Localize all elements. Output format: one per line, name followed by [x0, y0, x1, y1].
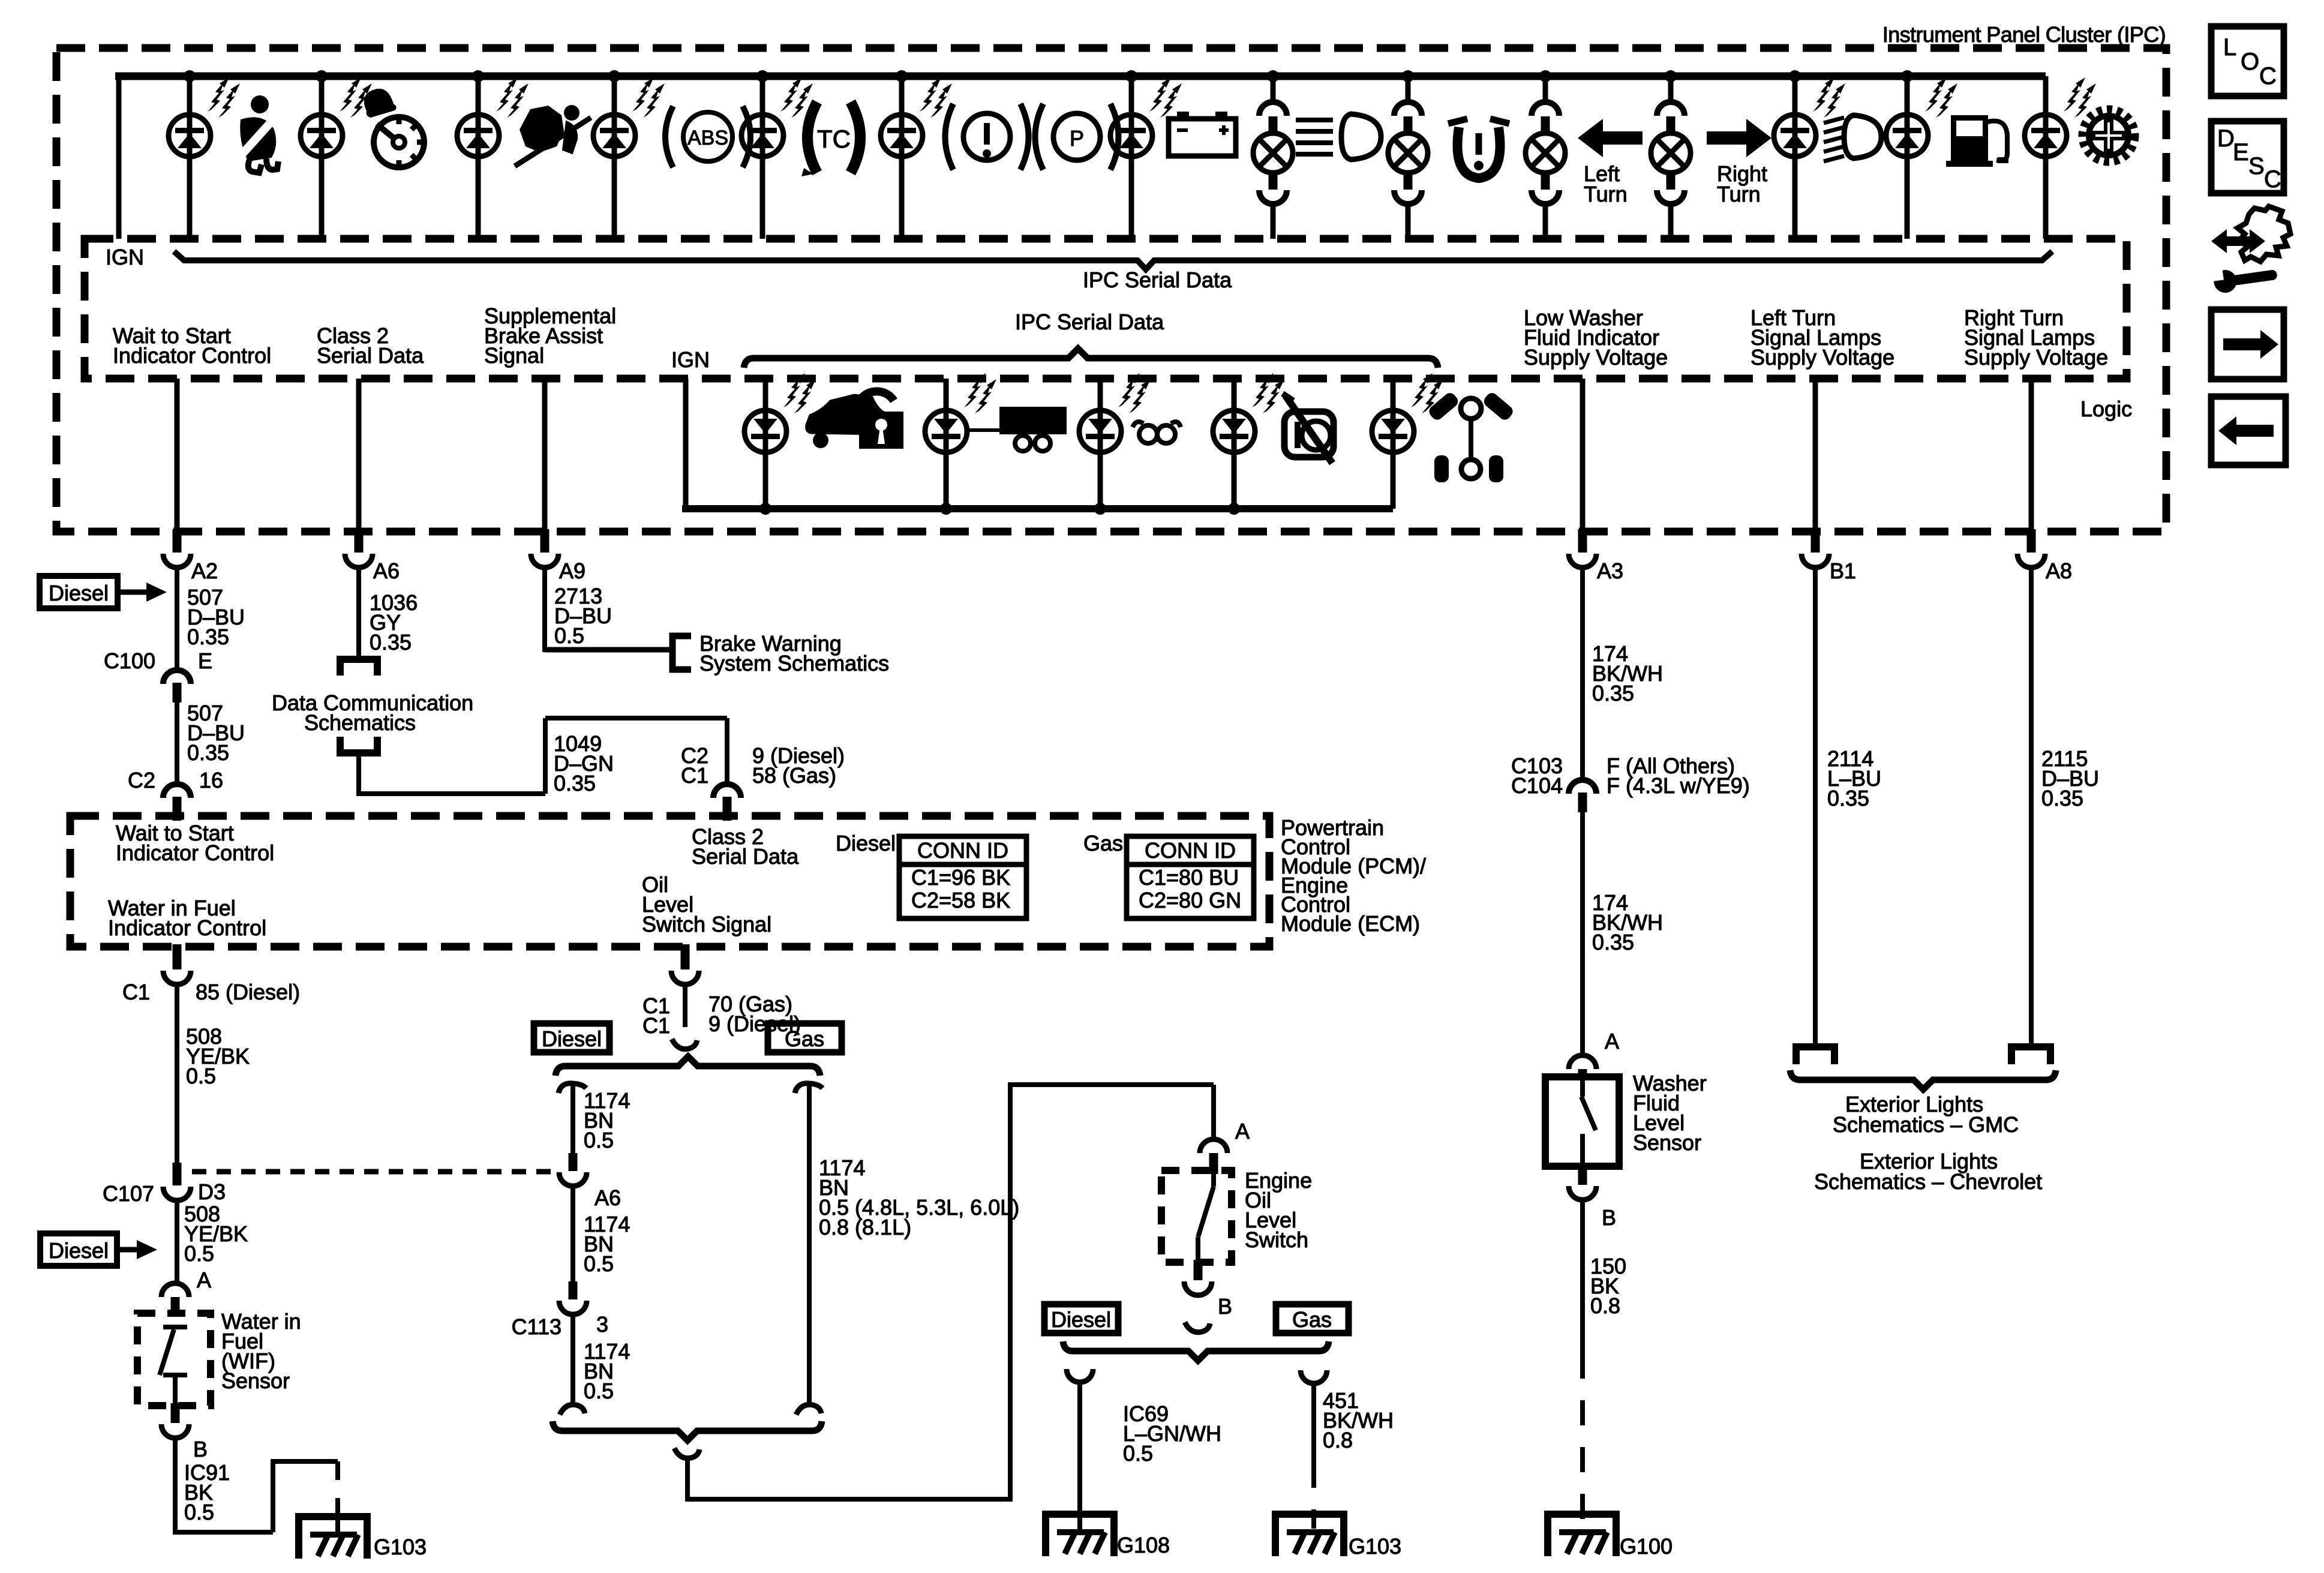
svg-text:G103: G103	[1349, 1534, 1401, 1559]
svg-text:C113: C113	[512, 1314, 562, 1339]
svg-text:C: C	[2264, 166, 2281, 193]
svg-text:Gas: Gas	[1292, 1307, 1332, 1332]
svg-text:ABS: ABS	[687, 127, 728, 149]
svg-text:Serial Data: Serial Data	[317, 343, 424, 368]
svg-text:Switch: Switch	[1245, 1227, 1308, 1252]
svg-text:Turn: Turn	[1584, 182, 1628, 206]
svg-text:Supply Voltage: Supply Voltage	[1964, 345, 2108, 370]
svg-text:Diesel: Diesel	[49, 581, 109, 605]
svg-text:A3: A3	[1597, 559, 1623, 583]
svg-text:C1=80 BU: C1=80 BU	[1139, 865, 1239, 890]
svg-text:C100: C100	[104, 649, 155, 673]
svg-text:A: A	[1605, 1029, 1619, 1053]
svg-text:Signal: Signal	[484, 343, 544, 368]
svg-text:C2=80 GN: C2=80 GN	[1139, 888, 1241, 912]
svg-text:C: C	[2259, 63, 2277, 89]
svg-text:F (4.3L w/YE9): F (4.3L w/YE9)	[1607, 773, 1750, 798]
svg-text:G108: G108	[1117, 1533, 1170, 1557]
svg-text:0.35: 0.35	[187, 625, 229, 649]
svg-text:C2=58 BK: C2=58 BK	[911, 888, 1010, 912]
svg-text:IGN: IGN	[671, 347, 710, 372]
svg-text:B: B	[193, 1437, 208, 1461]
svg-text:IPC Serial Data: IPC Serial Data	[1015, 310, 1164, 334]
svg-text:D: D	[2217, 125, 2235, 152]
svg-text:C1=96 BK: C1=96 BK	[911, 865, 1010, 890]
svg-text:Schematics – GMC: Schematics – GMC	[1833, 1112, 2019, 1137]
svg-text:G103: G103	[374, 1535, 427, 1559]
svg-text:C1: C1	[122, 980, 150, 1004]
svg-text:A9: A9	[559, 559, 585, 583]
svg-text:Serial Data: Serial Data	[692, 844, 799, 869]
svg-text:0.8 (8.1L): 0.8 (8.1L)	[819, 1215, 911, 1239]
svg-text:0.5: 0.5	[184, 1241, 214, 1266]
svg-text:0.5: 0.5	[554, 623, 584, 648]
svg-text:Switch Signal: Switch Signal	[642, 912, 771, 936]
svg-text:0.35: 0.35	[554, 771, 596, 795]
svg-text:B1: B1	[1830, 559, 1856, 583]
svg-text:O: O	[2241, 49, 2259, 75]
svg-text:Sensor: Sensor	[221, 1368, 290, 1393]
svg-text:Supply Voltage: Supply Voltage	[1750, 345, 1894, 370]
svg-text:B: B	[1218, 1294, 1232, 1319]
svg-text:Diesel: Diesel	[49, 1238, 109, 1263]
svg-text:Diesel: Diesel	[1051, 1307, 1111, 1332]
svg-text:IPC Serial Data: IPC Serial Data	[1083, 268, 1232, 292]
svg-text:S: S	[2248, 153, 2265, 179]
svg-text:0.8: 0.8	[1590, 1293, 1620, 1318]
svg-text:System Schematics: System Schematics	[699, 651, 889, 676]
svg-text:Module (ECM): Module (ECM)	[1281, 911, 1420, 936]
svg-text:G100: G100	[1620, 1534, 1673, 1559]
svg-text:D3: D3	[198, 1179, 226, 1204]
svg-text:Logic: Logic	[2080, 397, 2132, 421]
svg-text:L: L	[2223, 34, 2236, 61]
svg-text:0.35: 0.35	[1592, 681, 1634, 706]
svg-text:A2: A2	[191, 559, 218, 583]
svg-text:0.8: 0.8	[1323, 1428, 1353, 1452]
svg-text:Indicator Control: Indicator Control	[108, 915, 266, 940]
svg-text:A6: A6	[594, 1185, 621, 1210]
svg-text:B: B	[1602, 1205, 1616, 1230]
svg-text:C2: C2	[128, 768, 155, 792]
svg-text:0.5: 0.5	[184, 1500, 214, 1524]
svg-text:3: 3	[596, 1312, 608, 1337]
svg-text:C104: C104	[1511, 773, 1563, 798]
svg-text:0.35: 0.35	[370, 630, 412, 655]
svg-text:P: P	[1070, 126, 1084, 151]
svg-text:Sensor: Sensor	[1633, 1130, 1701, 1155]
svg-text:0.35: 0.35	[1827, 786, 1869, 810]
svg-text:E: E	[198, 649, 212, 673]
svg-text:C1: C1	[681, 763, 708, 788]
svg-text:E: E	[2233, 139, 2249, 166]
svg-text:Diesel: Diesel	[542, 1026, 602, 1051]
svg-text:16: 16	[199, 768, 223, 792]
svg-text:Gas: Gas	[785, 1026, 824, 1051]
svg-text:0.5: 0.5	[1123, 1441, 1153, 1466]
svg-text:0.35: 0.35	[2041, 786, 2083, 810]
svg-text:0.5: 0.5	[584, 1379, 614, 1403]
svg-text:0.5: 0.5	[186, 1064, 216, 1088]
svg-text:Supply Voltage: Supply Voltage	[1524, 345, 1668, 370]
svg-text:Instrument Panel Cluster (IPC): Instrument Panel Cluster (IPC)	[1882, 22, 2166, 47]
svg-text:0.35: 0.35	[1592, 930, 1634, 954]
svg-text:A: A	[197, 1268, 211, 1292]
svg-text:Turn: Turn	[1717, 182, 1761, 206]
svg-text:A8: A8	[2046, 559, 2072, 583]
svg-text:Schematics – Chevrolet: Schematics – Chevrolet	[1814, 1169, 2042, 1194]
svg-text:58 (Gas): 58 (Gas)	[752, 763, 836, 788]
svg-text:Indicator Control: Indicator Control	[116, 840, 274, 865]
svg-text:Gas: Gas	[1083, 831, 1123, 855]
svg-text:CONN ID: CONN ID	[1145, 838, 1236, 863]
svg-text:0.5: 0.5	[584, 1251, 614, 1276]
svg-text:TC: TC	[817, 125, 851, 153]
svg-text:85 (Diesel): 85 (Diesel)	[196, 980, 300, 1004]
svg-text:CONN ID: CONN ID	[917, 838, 1008, 863]
svg-text:Schematics: Schematics	[304, 710, 416, 735]
svg-text:0.5: 0.5	[584, 1128, 614, 1152]
svg-text:A6: A6	[373, 559, 400, 583]
svg-text:Indicator Control: Indicator Control	[113, 343, 271, 368]
svg-text:IGN: IGN	[106, 245, 144, 269]
svg-text:0.35: 0.35	[187, 740, 229, 765]
svg-text:Diesel: Diesel	[836, 831, 896, 855]
svg-text:C1: C1	[642, 1013, 670, 1038]
svg-text:A: A	[1235, 1119, 1250, 1143]
svg-text:C107: C107	[103, 1181, 154, 1206]
